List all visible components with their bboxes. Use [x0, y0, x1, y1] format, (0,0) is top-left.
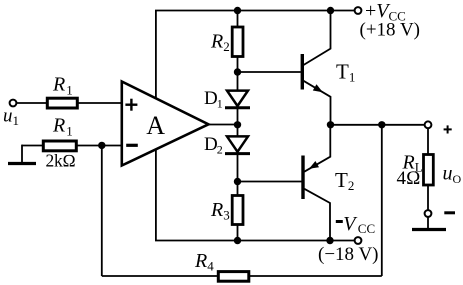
wire feedback vertical left	[101, 145, 103, 276]
transistor T1	[302, 11, 330, 125]
terminal output -	[425, 210, 432, 217]
wire inverting input	[22, 145, 122, 147]
ground right	[412, 228, 446, 231]
svg-text:(+18 V): (+18 V)	[360, 20, 421, 41]
diode D1	[225, 91, 250, 108]
svg-text:4Ω: 4Ω	[397, 168, 421, 189]
resistor R2	[232, 27, 243, 57]
op-amp + sign	[125, 99, 137, 111]
wire output rail	[331, 124, 425, 126]
node dot op-amp output / D1 D2	[234, 121, 241, 128]
junction dot inverting input / feedback	[98, 142, 105, 149]
svg-text:(−18 V): (−18 V)	[318, 244, 379, 265]
svg-text:2kΩ: 2kΩ	[46, 151, 76, 171]
terminal +Vcc	[355, 7, 362, 14]
transistor T2	[303, 125, 330, 241]
wire feedback bottom	[102, 275, 382, 277]
terminal u1 input	[10, 100, 17, 107]
resistor R4	[218, 272, 249, 282]
wire R2 D1 D2 R3 branch vertical	[237, 11, 239, 241]
junction dot T1 collector	[327, 7, 334, 14]
op-amp A	[122, 82, 209, 166]
wire ground stub left	[21, 145, 23, 164]
wire op-amp output	[209, 124, 238, 126]
terminal -Vcc	[355, 237, 362, 244]
wire T1 base	[238, 71, 301, 73]
wire top +Vcc rail	[155, 10, 355, 12]
svg-text:CC: CC	[358, 221, 375, 236]
label -Vcc	[336, 213, 375, 236]
junction dot top rail R2	[234, 7, 241, 14]
resistor RL	[424, 155, 434, 186]
label output -	[444, 211, 455, 214]
wire feedback vertical right	[381, 125, 383, 276]
wire ground stub right	[427, 217, 429, 230]
junction dot T2 collector	[326, 237, 333, 244]
resistor R1 lower 2k	[43, 141, 76, 151]
ground left	[8, 162, 36, 165]
diode D2	[225, 136, 250, 153]
wire op-amp V+ supply	[155, 11, 157, 100]
terminal output +	[425, 121, 432, 128]
junction dot D2 / R3 / T2 base	[234, 178, 241, 185]
resistor R3	[232, 196, 243, 225]
wire op-amp V- supply	[155, 150, 157, 241]
junction dot output feedback	[378, 121, 385, 128]
svg-text:A: A	[146, 111, 165, 140]
label output +	[444, 125, 452, 133]
op-amp - sign	[126, 144, 138, 147]
wire noninverting input	[16, 102, 122, 104]
junction dot emitters / output	[327, 121, 334, 128]
resistor R1 upper	[47, 98, 77, 108]
junction dot R2 / D1 / T1 base	[234, 68, 241, 75]
junction dot R3 bottom rail	[234, 237, 241, 244]
wire RL top	[427, 128, 429, 154]
wire bottom -Vcc rail	[155, 240, 355, 242]
wire T2 base	[238, 181, 302, 183]
wire RL bottom	[427, 185, 429, 210]
